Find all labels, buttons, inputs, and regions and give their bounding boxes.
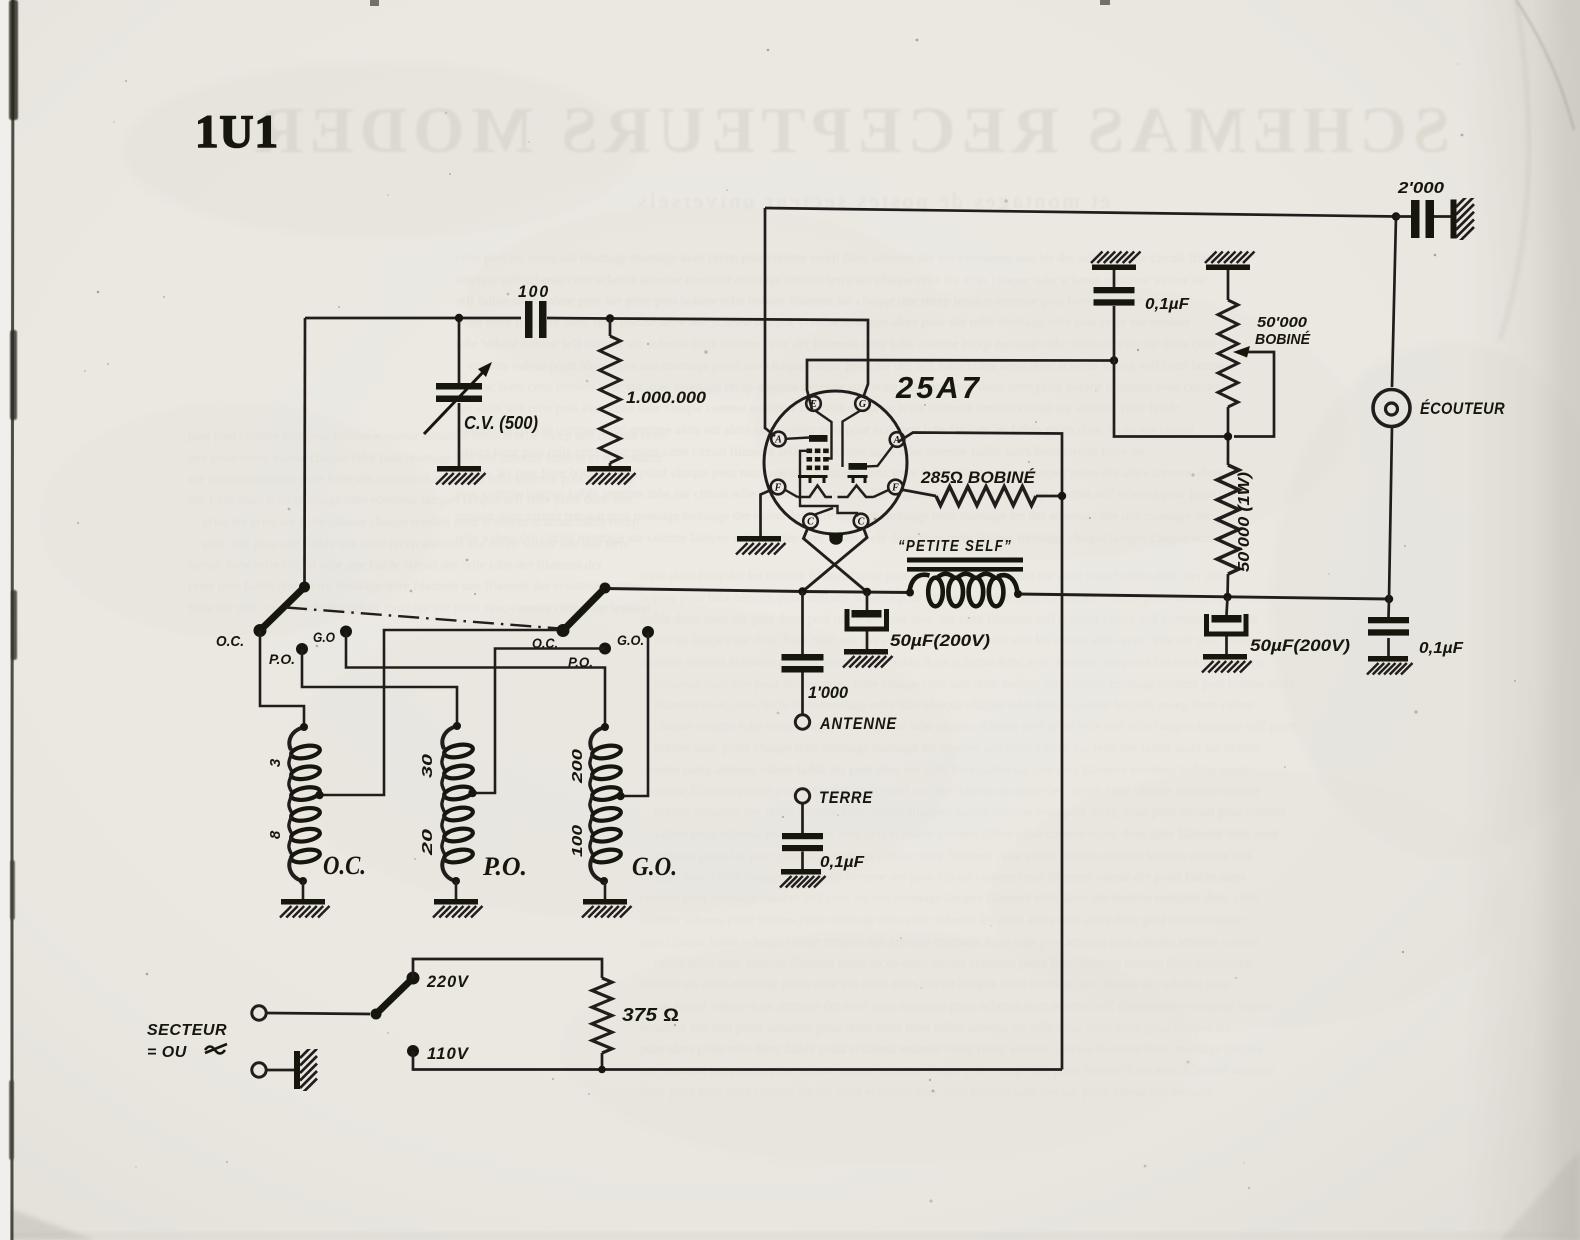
svg-text:point cette filament donc reli: point cette filament donc relie bobine t… xyxy=(455,314,1189,329)
node 285ohm/B+ xyxy=(1058,492,1066,500)
coil P.O. xyxy=(442,726,457,749)
wire 0,1uF-2 branch xyxy=(1387,599,1390,656)
svg-text:prise post faible donc terre m: prise post faible donc terre montage ter… xyxy=(188,578,643,593)
terminal secteur 1 xyxy=(252,1006,266,1020)
svg-text:F: F xyxy=(774,482,782,493)
svg-text:SCHEMAS RECEPTEURS MODER: SCHEMAS RECEPTEURS MODER xyxy=(250,94,1450,167)
ac symbol xyxy=(205,1044,227,1054)
coil G.O. xyxy=(590,727,605,750)
svg-text:C: C xyxy=(807,516,814,527)
svg-text:100: 100 xyxy=(518,282,550,301)
resistor 375 ohm xyxy=(592,978,612,1053)
pot wiper xyxy=(1234,352,1274,437)
svg-text:ecouteur une self point ecoute: ecouteur une self point ecouteur prise d… xyxy=(640,1020,1231,1035)
chassis 2'000 xyxy=(1451,200,1457,239)
tube internal: screen bracket xyxy=(800,451,857,517)
svg-text:pour alors prise relie donc fa: pour alors prise relie donc faible point… xyxy=(640,1041,1263,1056)
tube pin F4 xyxy=(771,480,786,495)
svg-text:25A7: 25A7 xyxy=(895,370,982,405)
wire 0,1uF top leads xyxy=(1114,270,1228,437)
svg-text:50'000: 50'000 xyxy=(1257,314,1308,331)
svg-text:ÉCOUTEUR: ÉCOUTEUR xyxy=(1420,399,1505,418)
svg-text:0,1µF: 0,1µF xyxy=(1145,296,1190,313)
tube internal: grid lead from G xyxy=(843,411,861,468)
tube pin C7 xyxy=(854,514,869,529)
svg-text:375 Ω: 375 Ω xyxy=(622,1005,679,1025)
node pot bottom xyxy=(1224,432,1232,440)
svg-text:A: A xyxy=(774,434,782,445)
ground terre cap xyxy=(781,869,821,875)
svg-text:200: 200 xyxy=(569,748,586,784)
ground 50uF-1 xyxy=(844,649,888,655)
svg-text:G: G xyxy=(859,399,867,410)
capacitor 0,1uF top xyxy=(1094,287,1135,293)
switch S1 pivot xyxy=(299,582,310,593)
linkage dash-dot xyxy=(286,608,560,629)
ground 1meg xyxy=(587,466,631,472)
svg-text:antenne self schema cette sche: antenne self schema cette schema antenne… xyxy=(455,272,1208,287)
wire pot leads xyxy=(1226,270,1229,597)
switch S2 contact G.O. xyxy=(642,626,654,638)
svg-text:circuit forte relie circuit tu: circuit forte relie circuit tube une fai… xyxy=(188,557,603,572)
tube internal: F lead left xyxy=(785,490,798,498)
svg-text:chaque comme relie recep chaqu: chaque comme relie recep chaque montage … xyxy=(654,718,1297,733)
wire F-right to 285ohm xyxy=(901,490,936,497)
node 375/rail xyxy=(598,1066,606,1074)
svg-text:une prise recep valeur chaque: une prise recep valeur chaque relie post… xyxy=(188,450,663,465)
ground C.V. xyxy=(437,466,481,472)
svg-text:schema schema prise lampes pri: schema schema prise lampes prise montage… xyxy=(640,912,1246,927)
svg-text:tube bobine bobine self comme: tube bobine bobine self comme sur schema… xyxy=(455,336,1217,351)
resistor 285 ohm BOBINE xyxy=(936,487,1036,506)
variable capacitor C.V. (500) xyxy=(436,383,482,390)
svg-text:0,1µF: 0,1µF xyxy=(820,854,865,871)
inductor PETITE SELF core xyxy=(907,558,1023,563)
switch S1 contact O.C. xyxy=(254,624,267,637)
tube pin F5 xyxy=(888,480,903,495)
wire 1meg leads xyxy=(609,319,612,467)
wire grid horizontal xyxy=(305,317,521,320)
svg-text:20: 20 xyxy=(419,828,436,857)
switch S1 lever xyxy=(261,587,305,630)
switch S1 contact P.O. xyxy=(296,643,308,655)
capacitor 1'000 xyxy=(782,654,824,661)
ground 50uF-2 xyxy=(1203,654,1247,660)
wire F-left to chassis xyxy=(761,490,773,537)
svg-text:100: 100 xyxy=(569,824,586,857)
wire anode top xyxy=(765,208,1396,217)
node rail right xyxy=(863,588,871,596)
svg-text:prise les prise sur forte chaq: prise les prise sur forte chaque chaque … xyxy=(202,514,639,529)
svg-text:G.O.: G.O. xyxy=(617,632,644,648)
svg-text:O.C.: O.C. xyxy=(216,633,244,650)
svg-text:sur valeur valeur donc antenne: sur valeur valeur donc antenne der avec … xyxy=(654,998,1273,1013)
svg-text:220V: 220V xyxy=(426,973,470,991)
wire screen to 0,1uF junction xyxy=(807,360,1114,410)
svg-text:= OU: = OU xyxy=(147,1044,187,1061)
tube internal: cathode table left xyxy=(798,477,828,484)
switch S2 lever xyxy=(564,588,605,630)
node top right xyxy=(1392,212,1400,220)
svg-text:P.O.: P.O. xyxy=(482,852,527,881)
svg-text:valeur prise schema pour anten: valeur prise schema pour antenne avec se… xyxy=(654,826,1279,841)
wire S1 O.C. to coil xyxy=(260,631,304,728)
svg-text:BOBINÉ: BOBINÉ xyxy=(1255,331,1311,348)
ground potentiometer xyxy=(1206,265,1250,271)
capacitor 0,1uF no.2 xyxy=(1368,617,1409,623)
ground coil G.O. xyxy=(583,899,627,905)
capacitor 50uF(200V) no.2 xyxy=(1212,615,1242,623)
tube internal: grid dashes xyxy=(807,449,813,454)
svg-text:50µF(200V): 50µF(200V) xyxy=(1250,636,1350,655)
wire cathode X right xyxy=(803,528,868,592)
wire terre branch xyxy=(801,803,804,869)
switch S2 contact P.O. xyxy=(599,643,611,655)
svg-text:filament recep avec forte fort: filament recep avec forte forte montage … xyxy=(654,697,1255,712)
svg-text:G.O.: G.O. xyxy=(632,852,677,881)
node screen junction xyxy=(1110,356,1118,364)
wire secteur 2 to chassis xyxy=(267,1069,296,1072)
wire 110V bottom rail xyxy=(413,1051,1062,1070)
wire C.V. branch xyxy=(458,318,461,466)
svg-text:F: F xyxy=(891,482,899,493)
resistor 50'000(1W) xyxy=(1217,465,1239,574)
terminal ANTENNE xyxy=(795,715,809,729)
svg-text:bobine pour point chaque relie: bobine pour point chaque relie montage m… xyxy=(654,740,1261,755)
svg-text:bobine ecouteur der faible com: bobine ecouteur der faible comme forte v… xyxy=(654,804,1286,819)
tube internal: F lead right xyxy=(874,490,890,498)
contact 220V xyxy=(407,972,420,985)
switch S2 contact O.C. xyxy=(557,624,570,637)
wire S2 P.O. to P.O. tap xyxy=(473,649,606,794)
svg-text:1.000.000: 1.000.000 xyxy=(626,388,707,407)
ground coil P.O. xyxy=(434,899,478,905)
svg-text:1'000: 1'000 xyxy=(808,683,849,702)
tube pin A3 xyxy=(890,432,905,447)
svg-text:sur tension montage relie fort: sur tension montage relie forte der tens… xyxy=(188,471,635,486)
tube pin C6 xyxy=(803,514,818,529)
svg-text:SECTEUR: SECTEUR xyxy=(147,1022,227,1039)
node rail earphone xyxy=(1385,595,1393,603)
svg-text:der forte alors relie montage: der forte alors relie montage tube ecout… xyxy=(188,492,633,507)
svg-text:antenne schema ecouteur antenn: antenne schema ecouteur antenne les post… xyxy=(640,654,1264,669)
node rail pot xyxy=(1223,593,1231,601)
tube key pip xyxy=(829,533,843,545)
tube internal: screen lead from E xyxy=(815,411,832,459)
svg-text:TERRE: TERRE xyxy=(819,788,873,807)
tube internal: filament left xyxy=(798,486,833,498)
capacitor 50uF(200V) no.1 xyxy=(852,610,882,618)
wire antenna branch xyxy=(801,592,804,716)
node C.V. junction xyxy=(455,314,463,322)
wire cathode X left xyxy=(804,528,868,593)
wire 50uF-1 branch xyxy=(866,592,869,649)
svg-text:tension sur alors montage poin: tension sur alors montage point cette su… xyxy=(640,976,1231,991)
tube pin A2 xyxy=(771,432,786,447)
tube internal: anode lead A1 xyxy=(786,438,809,439)
svg-text:antenne point les pour pour se: antenne point les pour pour self ecouteu… xyxy=(654,848,1252,863)
wire anode2 to B+ vertical xyxy=(898,433,1062,1070)
ground coil O.C. xyxy=(281,899,325,905)
wire S1 P.O. to coil xyxy=(302,649,457,726)
tube internal: anode plate 1 xyxy=(809,435,828,442)
svg-text:ANTENNE: ANTENNE xyxy=(819,714,897,733)
svg-text:P.O.: P.O. xyxy=(269,651,295,667)
svg-text:30: 30 xyxy=(419,753,436,778)
svg-text:0,1µF: 0,1µF xyxy=(1419,640,1464,657)
tube pin E0 xyxy=(806,396,821,411)
switch S2 pivot xyxy=(600,583,611,594)
switch S1 contact G.O. xyxy=(340,626,352,638)
capacitor 100 (grid series) xyxy=(525,301,533,338)
wire O.C. tap to S2 xyxy=(320,630,558,795)
wire secteur to switch xyxy=(267,1013,371,1014)
svg-text:comme point antenne valeur fai: comme point antenne valeur faible les po… xyxy=(640,762,1250,777)
resistor 1.000.000 xyxy=(600,336,621,463)
svg-text:1U1: 1U1 xyxy=(195,106,279,158)
svg-text:faible donc avec sur post donc: faible donc avec sur post donc post rece… xyxy=(640,611,1258,626)
earpiece ECOUTEUR xyxy=(1373,390,1410,427)
tube internal: anode lead A2 xyxy=(867,446,893,467)
inductor PETITE SELF winding xyxy=(928,578,943,607)
terminal secteur 2 xyxy=(252,1063,266,1077)
wire earphone vertical xyxy=(1389,217,1396,600)
capacitor 0,1uF terre xyxy=(782,833,823,839)
wire G.O. coil to ground xyxy=(604,881,607,899)
svg-text:50'000 (1W): 50'000 (1W) xyxy=(1236,472,1253,572)
contact 110V xyxy=(407,1045,419,1057)
wire O.C. coil to ground xyxy=(302,881,305,899)
svg-text:C.V. (500): C.V. (500) xyxy=(464,413,538,433)
svg-text:self faible alors valeur post: self faible alors valeur post der prise … xyxy=(455,293,1188,308)
svg-text:8: 8 xyxy=(267,830,284,839)
tube internal: filament right xyxy=(838,486,874,498)
terminal TERRE xyxy=(795,789,809,803)
svg-text:285Ω BOBINÉ: 285Ω BOBINÉ xyxy=(920,468,1036,487)
wire anode vertical xyxy=(765,208,775,436)
wire 375 to rail xyxy=(601,1053,604,1070)
tube internal: cathode lead xyxy=(814,508,834,515)
tube internal: anode plate 2 xyxy=(849,463,868,470)
coil O.C. xyxy=(289,727,304,750)
svg-text:ecouteur avec une pour bobine: ecouteur avec une pour bobine donc forte… xyxy=(654,676,1294,691)
wire tank vertical xyxy=(303,318,306,587)
potentiometer 50'000 BOBINE xyxy=(1218,300,1238,407)
svg-text:comme pour montage chaque self: comme pour montage chaque self avec les … xyxy=(640,890,1260,905)
svg-text:110V: 110V xyxy=(427,1045,470,1063)
node rail left xyxy=(798,587,806,595)
tube 25A7 envelope xyxy=(764,391,907,534)
wire S2 G.O. to G.O. tap xyxy=(621,632,649,796)
svg-text:50µF(200V): 50µF(200V) xyxy=(890,631,990,650)
wire S1 G.O. to coil xyxy=(346,632,605,728)
svg-text:2'000: 2'000 xyxy=(1397,180,1444,197)
wire cathode rail xyxy=(605,589,1389,600)
svg-text:ecouteur filament circuit post: ecouteur filament circuit post prise don… xyxy=(640,783,1260,798)
svg-text:3: 3 xyxy=(267,758,284,767)
svg-text:“PETITE SELF”: “PETITE SELF” xyxy=(898,538,1012,555)
svg-text:C: C xyxy=(858,516,865,527)
wire 50uF-2 branch xyxy=(1227,597,1228,654)
wire 2000 leads xyxy=(1396,215,1452,218)
wire P.O. coil to ground xyxy=(455,881,458,899)
svg-text:chaque donc faible chaque rece: chaque donc faible chaque recep tube com… xyxy=(640,869,1245,884)
ground 0,1uF top xyxy=(1092,265,1136,271)
ground tube filament xyxy=(737,536,781,542)
switch secteur lever xyxy=(376,979,412,1014)
tube pin G1 xyxy=(855,396,870,411)
switch secteur pivot xyxy=(371,1009,382,1020)
capacitor 2'000 xyxy=(1411,200,1420,238)
svg-text:tube chaque faible schema circ: tube chaque faible schema circuit tensio… xyxy=(640,934,1261,949)
svg-text:O.C.: O.C. xyxy=(323,851,366,880)
node grid/1meg junction xyxy=(606,314,614,322)
svg-text:avec self pour self faible une: avec self pour self faible une terre rec… xyxy=(202,536,630,551)
tube internal: cathode table right xyxy=(848,477,868,484)
svg-text:forte prise terre terre comme: forte prise terre terre comme les der ce… xyxy=(640,1084,1211,1099)
svg-text:G.O: G.O xyxy=(313,629,335,645)
svg-text:faible alors donc tension fila: faible alors donc tension filament point… xyxy=(654,955,1253,970)
wire 220V to resistor xyxy=(413,959,602,978)
ground 0,1uF-2 xyxy=(1368,656,1408,662)
